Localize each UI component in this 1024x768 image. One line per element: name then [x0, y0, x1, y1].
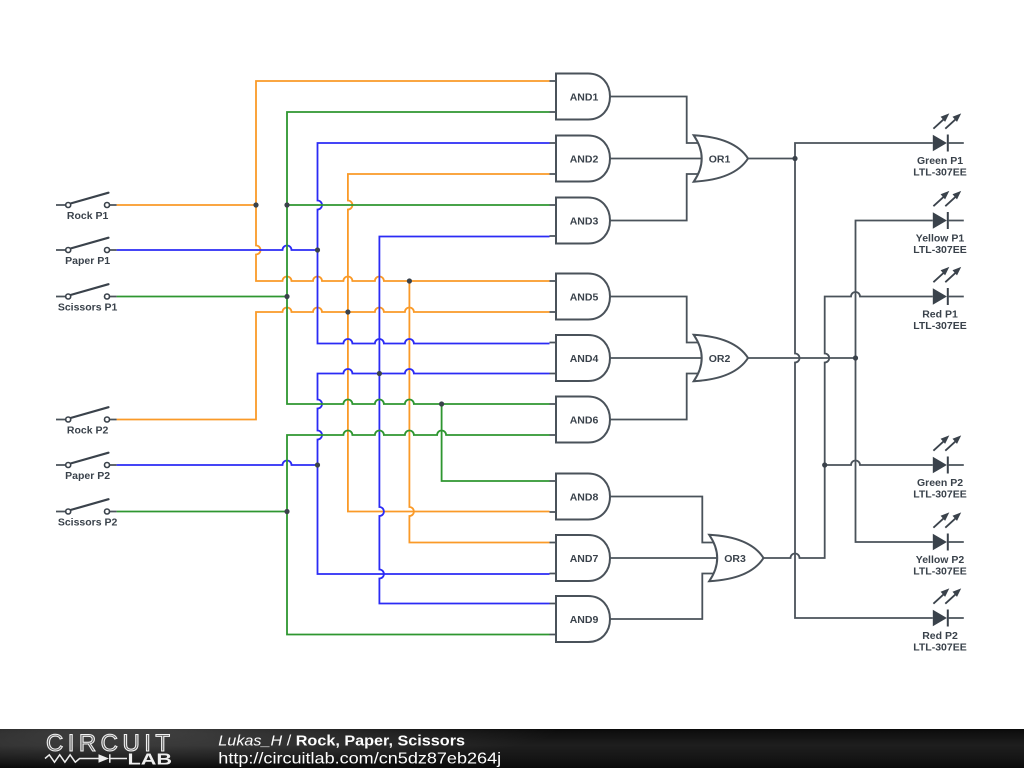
footer title Lukas_H / Rock, Paper, Scissors	[218, 733, 465, 749]
svg-text:OR2: OR2	[709, 353, 731, 365]
and-gate AND4	[550, 335, 611, 381]
node junction S1 vertical / AND3 top branch	[284, 202, 289, 207]
node junction OR3 output branch	[822, 462, 827, 467]
wire OR2 output	[748, 357, 856, 359]
node junction S1 branch / AND6 top wire	[439, 401, 444, 406]
node C junction Paper P2 / P2 vertical	[315, 462, 320, 467]
and-gate AND5	[550, 274, 611, 320]
node E junction Scissors P2 / S2 vertical	[284, 509, 289, 514]
switch SW1 Rock P1	[56, 193, 117, 222]
svg-text:AND9: AND9	[570, 614, 599, 626]
svg-text:LTL-307EE: LTL-307EE	[913, 320, 966, 332]
wire S1 branch: AND3 top input	[287, 204, 550, 206]
svg-text:AND2: AND2	[570, 153, 599, 165]
svg-text:AND6: AND6	[570, 414, 599, 426]
wire S1 branch: vertical x441 to AND8 top input	[442, 404, 550, 481]
svg-text:http://circuitlab.com/cn5dz87e: http://circuitlab.com/cn5dz87eb264j	[218, 750, 501, 768]
svg-text:AND3: AND3	[570, 215, 599, 227]
wire OR3 node to Green P2 LED (bump at x855)	[825, 461, 933, 466]
wire Paper P2 to node C	[117, 461, 318, 466]
wire AND8 output to OR3 input 1	[610, 497, 716, 543]
wire R1 net: AND1 top input, vertical x256, AND5 top input	[256, 81, 550, 281]
svg-text:Green P1: Green P1	[917, 155, 963, 167]
LED D5 Yellow P2	[913, 512, 966, 577]
svg-text:Paper P2: Paper P2	[65, 470, 110, 482]
svg-text:AND1: AND1	[570, 91, 599, 103]
node B junction Paper P1 / P1 vertical	[315, 247, 320, 252]
svg-text:LTL-307EE: LTL-307EE	[913, 489, 966, 501]
node junction OR2 output branch	[853, 355, 858, 360]
wire AND3 output to OR1 input 3	[610, 174, 700, 221]
svg-text:LTL-307EE: LTL-307EE	[913, 642, 966, 654]
or-gate OR2	[694, 335, 748, 381]
wire S1 net: AND1 bottom input, vertical x287, AND6 top input	[287, 112, 550, 404]
wire Rock P1 to node A	[117, 204, 256, 206]
LED D6 Red P2	[913, 588, 966, 653]
wire AND9 output to OR3 input 3	[610, 574, 716, 620]
node junction OR1 output	[792, 156, 797, 161]
wire OR2 node to Yellow P1 LED and Yellow P2 LED (vertical x855)	[856, 221, 933, 543]
switch SW6 Scissors P2	[56, 499, 118, 528]
svg-text:Yellow P1: Yellow P1	[916, 233, 965, 245]
and-gate AND7	[550, 535, 611, 581]
LED D3 Red P1	[913, 267, 966, 332]
and-gate AND1	[550, 74, 611, 120]
or-gate OR3	[709, 535, 763, 581]
or-gate OR1	[694, 135, 748, 181]
svg-text:OR1: OR1	[709, 153, 731, 165]
LED D2 Yellow P1	[913, 191, 966, 256]
node junction R1 branch / AND5 top wire	[407, 278, 412, 283]
node A junction Rock P1 / R1 vertical	[253, 202, 258, 207]
footer bar	[0, 729, 1024, 768]
wire Paper P1 to node B	[117, 246, 318, 251]
wire R1 branch: vertical x409 to AND7 top input	[409, 281, 549, 543]
switch SW2 Paper P1	[56, 238, 117, 267]
svg-text:Red P2: Red P2	[922, 630, 958, 642]
svg-text:AND4: AND4	[570, 353, 599, 365]
and-gate AND3	[550, 198, 611, 244]
and-gate AND2	[550, 136, 611, 182]
svg-text:AND8: AND8	[570, 491, 599, 503]
svg-text:Green P2: Green P2	[917, 477, 963, 489]
wire OR3 output to Red P1 LED (bump at x795, vertical x824.7, hop at 358, bump at x855)	[763, 292, 933, 558]
footer url	[218, 750, 501, 768]
wire AND5 output to OR2 input 1	[610, 297, 700, 343]
wire P1 net: AND2 top input, vertical x317, AND4 top input	[318, 143, 550, 344]
switch SW5 Paper P2	[56, 453, 117, 482]
svg-text:LAB: LAB	[128, 751, 173, 768]
wire AND6 output to OR2 input 3	[610, 374, 700, 420]
wire S2 net: AND6 bottom input, vertical x287, AND9 bottom input	[287, 431, 550, 635]
svg-text:Scissors P1: Scissors P1	[58, 302, 118, 314]
wire Scissors P2 to node E	[117, 511, 287, 513]
svg-text:Scissors P2: Scissors P2	[58, 517, 118, 529]
wire R2 net: Rock P2 switch, vertical x256, AND5 bottom input	[117, 308, 550, 420]
node junction P2 vertical / AND4 bottom wire	[377, 371, 382, 376]
wire R2 branch: AND2 bottom input, vertical x348, AND8 bottom input	[348, 174, 550, 512]
wire Scissors P1 to node D	[117, 296, 287, 298]
svg-text:Lukas_H / Rock, Paper, Scissor: Lukas_H / Rock, Paper, Scissors	[218, 733, 465, 749]
wire OR1 node to Green P1 LED and Red P2 LED (vertical x795, hop at 358)	[795, 143, 933, 618]
svg-text:Yellow P2: Yellow P2	[916, 554, 965, 566]
node junction R2 vertical / AND5 bottom wire	[345, 309, 350, 314]
wire P2 branch: AND4 bottom input, vertical x317, AND7 bottom input	[318, 369, 550, 574]
svg-text:AND5: AND5	[570, 291, 599, 303]
svg-text:Rock P2: Rock P2	[67, 425, 109, 437]
switch SW3 Scissors P1	[56, 284, 118, 313]
wire AND2 output to OR1 input 2	[610, 158, 703, 160]
CircuitLab logo wordmark LAB	[128, 751, 173, 768]
wire P2 net: AND3 bottom input, vertical x379, AND9 top input	[379, 237, 549, 604]
wire AND7 output to OR3 input 2	[610, 557, 718, 559]
wire AND4 output to OR2 input 2	[610, 357, 703, 359]
switch SW4 Rock P2	[56, 407, 117, 436]
svg-text:LTL-307EE: LTL-307EE	[913, 566, 966, 578]
svg-text:AND7: AND7	[570, 553, 599, 565]
and-gate AND8	[550, 474, 611, 520]
svg-text:OR3: OR3	[724, 553, 746, 565]
node D junction Scissors P1 / S1 vertical	[284, 294, 289, 299]
svg-text:Red P1: Red P1	[922, 309, 958, 321]
svg-text:LTL-307EE: LTL-307EE	[913, 244, 966, 256]
CircuitLab logo resistor-diode symbol	[45, 754, 127, 763]
LED D4 Green P2	[913, 435, 966, 500]
and-gate AND9	[550, 596, 611, 642]
wire OR1 output	[748, 158, 795, 160]
and-gate AND6	[550, 397, 611, 443]
svg-text:Paper P1: Paper P1	[65, 255, 110, 267]
LED D1 Green P1	[913, 113, 966, 178]
wire AND1 output to OR1 input 1	[610, 97, 700, 144]
svg-text:LTL-307EE: LTL-307EE	[913, 167, 966, 179]
svg-text:Rock P1: Rock P1	[67, 210, 109, 222]
